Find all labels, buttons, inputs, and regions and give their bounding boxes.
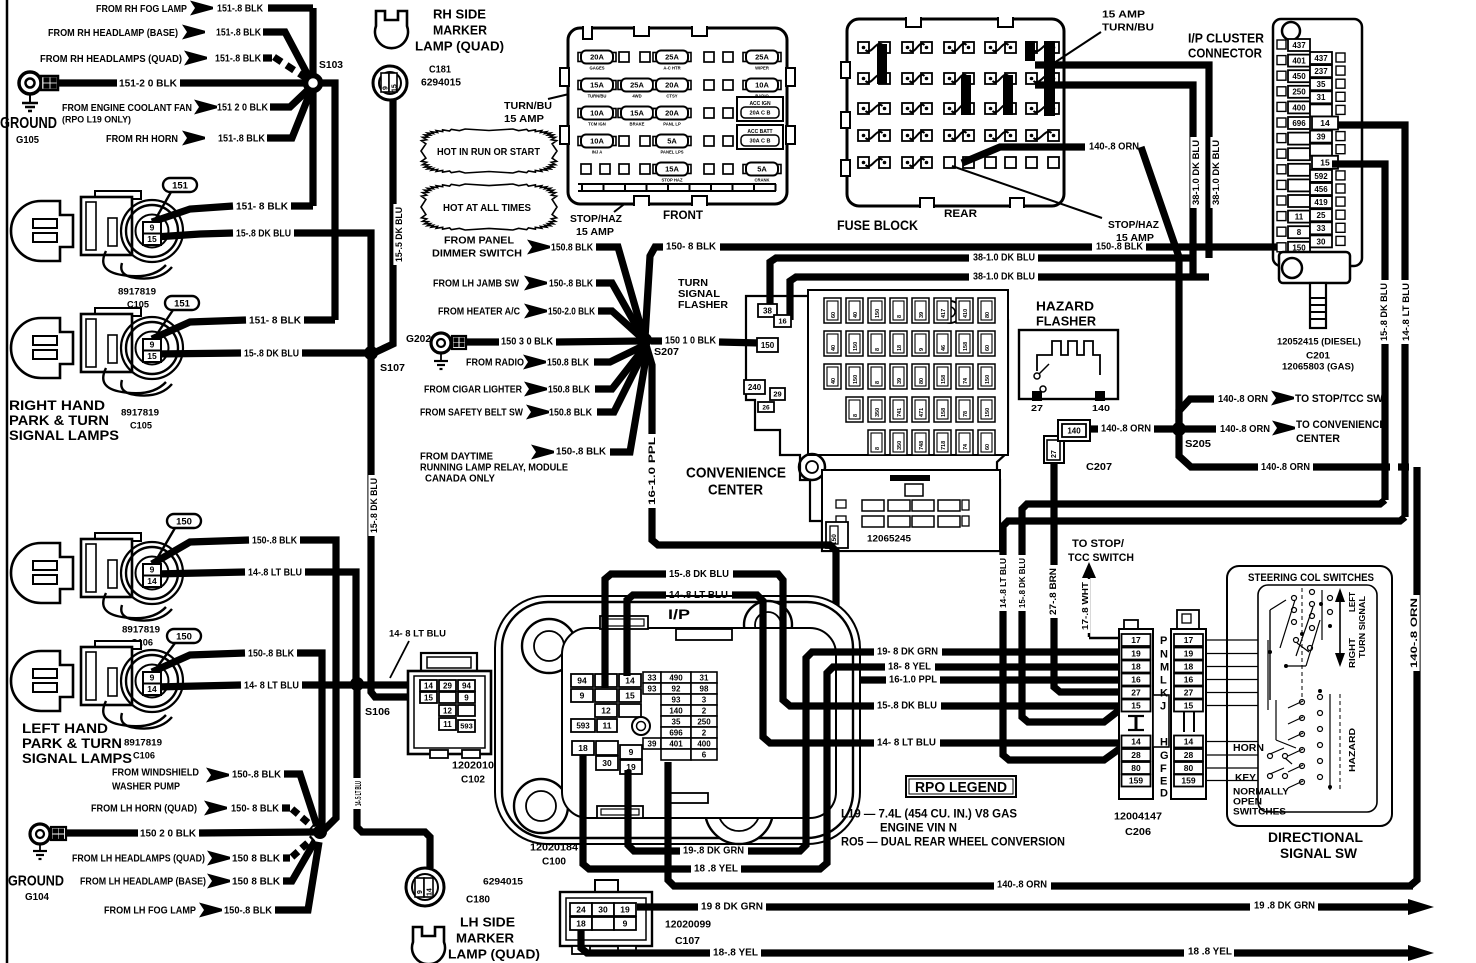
svg-text:20A: 20A	[665, 109, 679, 118]
svg-text:10A: 10A	[755, 81, 769, 90]
svg-text:2: 2	[702, 728, 707, 737]
svg-text:140-.8 ORN: 140-.8 ORN	[1409, 598, 1419, 668]
svg-text:31: 31	[1317, 93, 1326, 102]
svg-text:C106: C106	[133, 750, 155, 761]
svg-text:94: 94	[577, 676, 587, 686]
svg-text:GAGES: GAGES	[589, 66, 604, 71]
svg-text:15-.8 DK BLU: 15-.8 DK BLU	[236, 229, 291, 240]
svg-text:FROM LH JAMB SW: FROM LH JAMB SW	[433, 279, 520, 290]
svg-text:8917819: 8917819	[122, 624, 160, 635]
svg-text:HOT AT ALL TIMES: HOT AT ALL TIMES	[443, 202, 531, 214]
svg-text:ACC IGN: ACC IGN	[749, 101, 771, 107]
svg-text:9: 9	[623, 919, 628, 929]
svg-text:8: 8	[875, 381, 881, 384]
svg-text:158: 158	[941, 375, 947, 384]
svg-text:FROM RADIO: FROM RADIO	[466, 358, 524, 369]
svg-text:L19 — 7.4L (454 CU. IN.) V8 GA: L19 — 7.4L (454 CU. IN.) V8 GAS	[841, 806, 1017, 820]
svg-text:C207: C207	[1086, 461, 1112, 473]
svg-text:158: 158	[941, 408, 947, 417]
svg-text:12: 12	[601, 706, 611, 716]
svg-text:19: 19	[1131, 649, 1141, 659]
svg-text:RPO LEGEND: RPO LEGEND	[915, 780, 1007, 796]
svg-text:14: 14	[424, 681, 433, 690]
svg-text:14- 8 LT BLU: 14- 8 LT BLU	[877, 738, 936, 749]
svg-text:25: 25	[1317, 211, 1326, 220]
svg-text:E: E	[1160, 776, 1167, 788]
svg-text:15: 15	[424, 693, 433, 702]
svg-text:6: 6	[702, 750, 707, 759]
svg-text:18: 18	[1184, 662, 1194, 672]
svg-text:5A: 5A	[667, 137, 677, 146]
svg-text:HOT IN RUN OR START: HOT IN RUN OR START	[437, 146, 541, 158]
svg-text:741: 741	[897, 408, 903, 417]
svg-text:FROM RH FOG LAMP: FROM RH FOG LAMP	[96, 3, 187, 15]
svg-text:RUNNING LAMP RELAY, MODULE: RUNNING LAMP RELAY, MODULE	[420, 463, 568, 474]
svg-text:401: 401	[1292, 57, 1306, 66]
svg-text:6294015: 6294015	[421, 78, 461, 89]
svg-text:159: 159	[1129, 776, 1143, 786]
svg-text:30A C B: 30A C B	[750, 139, 771, 145]
svg-text:TO CONVENIENCE: TO CONVENIENCE	[1296, 419, 1386, 431]
svg-text:33: 33	[648, 673, 657, 682]
svg-text:15 AMP: 15 AMP	[576, 226, 614, 238]
svg-text:9: 9	[919, 348, 925, 351]
svg-text:12065803 (GAS): 12065803 (GAS)	[1282, 361, 1354, 372]
svg-text:12004147: 12004147	[1114, 812, 1162, 823]
svg-text:8917819: 8917819	[121, 407, 159, 418]
svg-text:CONNECTOR: CONNECTOR	[1188, 46, 1263, 61]
svg-text:19 .8 DK GRN: 19 .8 DK GRN	[1254, 901, 1315, 912]
svg-text:TURN SIGNAL: TURN SIGNAL	[1357, 596, 1367, 658]
svg-text:6294015: 6294015	[483, 876, 524, 887]
svg-text:80: 80	[1131, 763, 1141, 773]
svg-text:400: 400	[697, 739, 711, 748]
svg-text:CENTER: CENTER	[1296, 433, 1340, 445]
svg-text:60: 60	[831, 312, 837, 318]
svg-text:14: 14	[625, 676, 635, 686]
svg-text:27: 27	[1184, 688, 1194, 698]
svg-text:PARK & TURN: PARK & TURN	[22, 736, 122, 751]
svg-text:STEERING COL SWITCHES: STEERING COL SWITCHES	[1248, 572, 1374, 584]
svg-text:38: 38	[763, 306, 772, 315]
svg-text:CANADA ONLY: CANADA ONLY	[425, 474, 495, 485]
svg-text:140-.8 ORN: 140-.8 ORN	[1261, 461, 1310, 473]
svg-text:(RPO L19 ONLY): (RPO L19 ONLY)	[62, 114, 131, 125]
svg-text:C100: C100	[542, 857, 566, 868]
svg-text:40: 40	[853, 312, 859, 318]
svg-text:9: 9	[150, 223, 155, 233]
svg-text:33: 33	[1317, 224, 1326, 233]
svg-text:M: M	[1160, 662, 1169, 674]
svg-text:5A: 5A	[757, 165, 767, 174]
svg-text:14-.8 LT BLU: 14-.8 LT BLU	[1401, 283, 1411, 341]
svg-text:12020100: 12020100	[452, 761, 500, 772]
svg-text:4WD: 4WD	[632, 94, 641, 99]
svg-text:437: 437	[1292, 41, 1306, 50]
svg-text:151-.8 BLK: 151-.8 BLK	[215, 54, 262, 65]
svg-text:30: 30	[598, 905, 608, 915]
svg-text:17-.8 WHT: 17-.8 WHT	[1080, 581, 1090, 630]
svg-text:15A: 15A	[590, 81, 604, 90]
svg-text:78: 78	[963, 411, 969, 417]
svg-text:80: 80	[985, 312, 991, 318]
svg-text:27-.8 BRN: 27-.8 BRN	[1048, 568, 1058, 615]
svg-text:RIGHT: RIGHT	[1347, 637, 1357, 668]
svg-text:CTSY: CTSY	[666, 94, 677, 99]
svg-text:38-1.0 DK BLU: 38-1.0 DK BLU	[973, 272, 1035, 283]
svg-text:L: L	[1160, 675, 1167, 687]
svg-text:150-2.0 BLK: 150-2.0 BLK	[548, 307, 596, 318]
svg-text:C102: C102	[461, 775, 485, 786]
svg-text:150- 8 BLK: 150- 8 BLK	[666, 242, 717, 253]
svg-text:14-.8 LT BLU: 14-.8 LT BLU	[669, 589, 728, 601]
svg-text:27: 27	[1131, 688, 1141, 698]
svg-text:16-1.0 PPL: 16-1.0 PPL	[889, 675, 937, 686]
svg-text:25A: 25A	[665, 53, 679, 62]
svg-text:80: 80	[1184, 763, 1194, 773]
svg-text:9: 9	[417, 890, 424, 894]
svg-text:30: 30	[602, 758, 612, 768]
svg-text:14: 14	[427, 888, 434, 896]
svg-text:150.8 BLK: 150.8 BLK	[548, 385, 591, 396]
svg-text:FROM LH HEADLAMPS (QUAD): FROM LH HEADLAMPS (QUAD)	[72, 854, 205, 865]
svg-text:150-.8 BLK: 150-.8 BLK	[1096, 242, 1144, 253]
svg-text:G: G	[1160, 750, 1169, 762]
svg-text:8: 8	[875, 447, 881, 450]
svg-text:25A: 25A	[755, 53, 769, 62]
svg-text:HORN: HORN	[1233, 742, 1264, 754]
svg-text:98: 98	[700, 684, 709, 693]
svg-text:30: 30	[1317, 237, 1326, 246]
svg-text:S205: S205	[1185, 438, 1211, 450]
svg-text:18- 8 YEL: 18- 8 YEL	[888, 662, 931, 673]
svg-text:15: 15	[625, 691, 635, 701]
svg-text:38-1.0 DK BLU: 38-1.0 DK BLU	[973, 253, 1035, 264]
svg-text:18-.8 YEL: 18-.8 YEL	[713, 948, 758, 959]
svg-text:150: 150	[761, 341, 775, 350]
svg-text:150: 150	[853, 375, 859, 384]
svg-text:24: 24	[576, 905, 586, 915]
svg-text:15: 15	[392, 84, 399, 92]
svg-text:150.8 BLK: 150.8 BLK	[549, 408, 593, 419]
svg-text:11: 11	[1295, 213, 1304, 222]
svg-text:H: H	[1160, 737, 1168, 749]
svg-text:TO STOP/: TO STOP/	[1072, 538, 1124, 550]
svg-text:25A: 25A	[630, 81, 644, 90]
svg-text:15-.5 DK BLU: 15-.5 DK BLU	[394, 207, 404, 262]
svg-text:C181: C181	[429, 65, 451, 76]
svg-text:10A: 10A	[590, 109, 604, 118]
svg-text:150-.8 BLK: 150-.8 BLK	[556, 447, 607, 458]
svg-text:40: 40	[831, 378, 837, 384]
svg-text:150 1 0 BLK: 150 1 0 BLK	[665, 336, 717, 347]
svg-text:350: 350	[897, 441, 903, 450]
svg-text:DIRECTIONAL: DIRECTIONAL	[1268, 829, 1363, 845]
svg-text:FROM PANEL: FROM PANEL	[444, 236, 514, 247]
svg-text:26: 26	[762, 404, 770, 411]
svg-text:151-.8 BLK: 151-.8 BLK	[218, 134, 266, 145]
svg-text:240: 240	[748, 383, 762, 392]
svg-text:592: 592	[1314, 172, 1328, 181]
svg-text:150-.8 BLK: 150-.8 BLK	[252, 536, 298, 547]
svg-text:WIPER: WIPER	[755, 66, 769, 71]
svg-text:16: 16	[1131, 675, 1141, 685]
svg-text:14: 14	[1320, 118, 1330, 128]
svg-text:92: 92	[672, 684, 681, 693]
svg-text:STOP HAZ: STOP HAZ	[661, 178, 682, 183]
svg-text:18: 18	[578, 743, 588, 753]
svg-text:15: 15	[1320, 157, 1330, 167]
svg-text:15A: 15A	[630, 109, 644, 118]
svg-text:15-.8 DK BLU: 15-.8 DK BLU	[1017, 558, 1027, 608]
svg-text:150-.8 BLK: 150-.8 BLK	[248, 649, 295, 660]
svg-text:KEY: KEY	[1235, 772, 1256, 784]
svg-text:39: 39	[1317, 133, 1326, 142]
svg-text:15-.8 DK BLU: 15-.8 DK BLU	[877, 701, 937, 712]
svg-text:12052415 (DIESEL): 12052415 (DIESEL)	[1277, 336, 1361, 347]
svg-text:9: 9	[150, 673, 155, 683]
svg-text:748: 748	[919, 441, 925, 450]
svg-text:17: 17	[1184, 635, 1194, 645]
svg-text:27: 27	[1031, 403, 1043, 413]
svg-text:19: 19	[1184, 649, 1194, 659]
svg-text:FROM HEATER A/C: FROM HEATER A/C	[438, 307, 520, 318]
svg-text:593: 593	[460, 722, 473, 731]
svg-text:11: 11	[443, 720, 452, 729]
svg-text:14-.5 LT BLU: 14-.5 LT BLU	[353, 781, 363, 806]
svg-text:419: 419	[1314, 198, 1328, 207]
svg-text:15: 15	[1131, 701, 1141, 711]
svg-text:150- 8 BLK: 150- 8 BLK	[231, 804, 280, 815]
svg-text:151-2 0 BLK: 151-2 0 BLK	[119, 79, 178, 90]
svg-text:PARK & TURN: PARK & TURN	[9, 413, 109, 428]
svg-text:9: 9	[150, 565, 155, 575]
svg-text:GROUND: GROUND	[8, 872, 64, 889]
svg-text:159: 159	[1181, 776, 1195, 786]
svg-text:158: 158	[963, 342, 969, 351]
svg-text:FROM RH HEADLAMPS (QUAD): FROM RH HEADLAMPS (QUAD)	[40, 53, 182, 65]
svg-text:250: 250	[1292, 88, 1306, 97]
svg-text:60: 60	[985, 345, 991, 351]
svg-text:12: 12	[443, 706, 452, 715]
svg-text:14-.8 LT BLU: 14-.8 LT BLU	[998, 558, 1008, 608]
svg-text:16: 16	[1184, 675, 1194, 685]
svg-text:15: 15	[1184, 701, 1194, 711]
svg-text:150: 150	[176, 631, 192, 642]
svg-text:94: 94	[462, 681, 471, 690]
svg-text:I/P: I/P	[668, 606, 690, 622]
svg-text:3: 3	[702, 695, 707, 704]
svg-text:40: 40	[831, 345, 837, 351]
svg-text:15-.8 DK BLU: 15-.8 DK BLU	[1379, 283, 1389, 341]
svg-text:38-1.0 DK BLU: 38-1.0 DK BLU	[1211, 140, 1221, 205]
svg-text:12020099: 12020099	[665, 920, 711, 931]
svg-text:I/P CLUSTER: I/P CLUSTER	[1188, 31, 1265, 46]
svg-text:150-.8 BLK: 150-.8 BLK	[224, 906, 273, 917]
svg-text:BRAKE: BRAKE	[630, 122, 645, 127]
svg-text:20A C B: 20A C B	[750, 111, 771, 117]
svg-text:STOP/HAZ: STOP/HAZ	[1108, 219, 1160, 231]
svg-text:TURN/BU: TURN/BU	[504, 100, 552, 112]
svg-text:29: 29	[443, 681, 452, 690]
svg-text:140: 140	[1092, 403, 1110, 413]
svg-text:FROM WINDSHIELD: FROM WINDSHIELD	[112, 768, 199, 779]
svg-text:S107: S107	[380, 362, 405, 374]
svg-text:18: 18	[1131, 662, 1141, 672]
svg-text:140-.8 ORN: 140-.8 ORN	[1220, 423, 1270, 435]
svg-text:140-.8 ORN: 140-.8 ORN	[1101, 424, 1151, 435]
svg-text:P: P	[1160, 635, 1167, 647]
svg-text:150-.8 BLK: 150-.8 BLK	[232, 770, 282, 781]
svg-text:ENGINE VIN N: ENGINE VIN N	[880, 820, 957, 834]
svg-text:150 8 BLK: 150 8 BLK	[232, 877, 281, 888]
svg-text:150: 150	[853, 342, 859, 351]
svg-text:39: 39	[648, 739, 657, 748]
svg-text:TCC SWITCH: TCC SWITCH	[1068, 552, 1134, 564]
svg-text:150 2 0 BLK: 150 2 0 BLK	[140, 829, 197, 840]
svg-text:TURN/BU: TURN/BU	[588, 94, 607, 99]
svg-text:PANEL LPS: PANEL LPS	[660, 150, 683, 155]
svg-text:FLASHER: FLASHER	[678, 299, 728, 311]
svg-text:140-.8 ORN: 140-.8 ORN	[1089, 142, 1139, 153]
svg-text:350: 350	[875, 408, 881, 417]
svg-text:RO5 — DUAL REAR WHEEL CONVERSI: RO5 — DUAL REAR WHEEL CONVERSION	[841, 834, 1065, 848]
svg-text:A-C HTR: A-C HTR	[663, 66, 680, 71]
svg-text:456: 456	[1314, 185, 1328, 194]
svg-text:450: 450	[1292, 72, 1306, 81]
svg-text:LEFT HAND: LEFT HAND	[22, 721, 108, 736]
svg-text:39: 39	[897, 378, 903, 384]
svg-text:151: 151	[174, 298, 191, 309]
svg-text:CONVENIENCE: CONVENIENCE	[686, 464, 786, 481]
svg-text:150.8 BLK: 150.8 BLK	[551, 243, 594, 254]
svg-text:CRANK: CRANK	[754, 178, 769, 183]
svg-text:C107: C107	[675, 935, 700, 947]
svg-text:LAMP (QUAD): LAMP (QUAD)	[448, 947, 540, 962]
svg-text:12020184: 12020184	[530, 843, 578, 854]
svg-text:TO STOP/TCC SW: TO STOP/TCC SW	[1295, 393, 1384, 405]
svg-text:28: 28	[1131, 750, 1141, 760]
svg-text:C206: C206	[1125, 826, 1151, 838]
svg-text:8: 8	[1297, 228, 1302, 237]
svg-text:C201: C201	[1306, 350, 1331, 361]
svg-text:REAR: REAR	[944, 208, 977, 220]
svg-text:PANL LP: PANL LP	[663, 122, 681, 127]
svg-text:TURN/BU: TURN/BU	[1102, 23, 1154, 34]
svg-text:STOP/HAZ: STOP/HAZ	[570, 213, 623, 225]
svg-text:SIGNAL LAMPS: SIGNAL LAMPS	[22, 751, 132, 766]
svg-text:LH SIDE: LH SIDE	[460, 915, 515, 930]
svg-text:8917819: 8917819	[124, 737, 162, 748]
svg-text:140: 140	[1067, 426, 1081, 435]
svg-text:LAMP (QUAD): LAMP (QUAD)	[415, 39, 504, 54]
svg-text:G202: G202	[406, 333, 431, 345]
svg-text:F: F	[1160, 763, 1167, 775]
svg-text:FROM DAYTIME: FROM DAYTIME	[420, 452, 493, 463]
svg-text:19 8 DK GRN: 19 8 DK GRN	[701, 902, 763, 913]
svg-text:17: 17	[1131, 635, 1141, 645]
svg-text:G105: G105	[16, 134, 39, 146]
svg-text:593: 593	[576, 721, 590, 730]
svg-text:N: N	[1160, 649, 1168, 661]
svg-text:401: 401	[669, 739, 683, 748]
svg-text:9: 9	[383, 86, 390, 90]
svg-text:39: 39	[919, 312, 925, 318]
svg-text:150: 150	[985, 408, 991, 417]
svg-text:16: 16	[778, 317, 786, 326]
svg-text:9: 9	[580, 691, 585, 701]
svg-text:14: 14	[147, 576, 157, 586]
svg-text:140-.8 ORN: 140-.8 ORN	[997, 880, 1047, 891]
svg-text:29: 29	[773, 390, 781, 399]
svg-text:93: 93	[648, 684, 657, 693]
svg-text:400: 400	[1292, 103, 1306, 112]
svg-text:9: 9	[464, 693, 469, 702]
svg-text:SIGNAL SW: SIGNAL SW	[1280, 845, 1358, 861]
svg-text:151- 8 BLK: 151- 8 BLK	[249, 316, 302, 327]
svg-text:35: 35	[1317, 80, 1326, 89]
svg-text:490: 490	[669, 673, 683, 682]
svg-text:CENTER: CENTER	[708, 481, 763, 498]
svg-text:19: 19	[620, 905, 630, 915]
svg-text:8: 8	[897, 315, 903, 318]
svg-text:MARKER: MARKER	[433, 23, 488, 38]
svg-text:DIMMER SWITCH: DIMMER SWITCH	[432, 249, 522, 260]
svg-text:35: 35	[672, 717, 681, 726]
svg-text:J: J	[1160, 701, 1166, 713]
svg-text:150 3 0 BLK: 150 3 0 BLK	[501, 337, 554, 348]
svg-text:15: 15	[147, 234, 157, 244]
svg-text:151-.8 BLK: 151-.8 BLK	[217, 4, 264, 15]
svg-text:FROM ENGINE COOLANT FAN: FROM ENGINE COOLANT FAN	[62, 102, 192, 114]
svg-text:74: 74	[963, 443, 969, 450]
svg-text:15 AMP: 15 AMP	[504, 113, 544, 125]
svg-text:20A: 20A	[590, 53, 604, 62]
svg-text:S207: S207	[654, 346, 679, 358]
svg-text:FROM CIGAR LIGHTER: FROM CIGAR LIGHTER	[424, 385, 523, 396]
svg-text:C105: C105	[130, 420, 153, 431]
svg-text:151: 151	[172, 180, 189, 191]
svg-text:FROM LH HEADLAMP (BASE): FROM LH HEADLAMP (BASE)	[80, 877, 206, 888]
svg-text:237: 237	[1314, 67, 1328, 76]
svg-text:140-.8 ORN: 140-.8 ORN	[1218, 393, 1268, 405]
svg-text:18: 18	[576, 919, 586, 929]
svg-text:471: 471	[919, 408, 925, 417]
svg-text:696: 696	[1292, 119, 1306, 128]
svg-text:151- 8 BLK: 151- 8 BLK	[236, 202, 289, 213]
svg-text:14: 14	[147, 684, 157, 694]
svg-text:28: 28	[1184, 750, 1194, 760]
svg-text:18 .8 YEL: 18 .8 YEL	[694, 864, 738, 875]
svg-text:8917819: 8917819	[118, 286, 156, 297]
svg-text:FROM SAFETY BELT SW: FROM SAFETY BELT SW	[420, 408, 523, 419]
svg-text:151-.8 BLK: 151-.8 BLK	[216, 28, 262, 39]
svg-text:HAZARD: HAZARD	[1347, 728, 1357, 772]
svg-text:15 AMP: 15 AMP	[1102, 10, 1145, 21]
svg-text:150 8 BLK: 150 8 BLK	[232, 854, 281, 865]
svg-text:14-.8 LT BLU: 14-.8 LT BLU	[248, 568, 302, 579]
svg-text:93: 93	[672, 695, 681, 704]
svg-text:15: 15	[147, 351, 157, 361]
svg-text:14- 8 LT BLU: 14- 8 LT BLU	[389, 628, 446, 639]
svg-text:437: 437	[1314, 54, 1328, 63]
svg-text:14: 14	[1131, 737, 1141, 747]
svg-text:INJ A: INJ A	[592, 150, 603, 155]
svg-text:FLASHER: FLASHER	[1036, 314, 1097, 329]
svg-text:250: 250	[697, 717, 711, 726]
svg-text:8: 8	[875, 348, 881, 351]
svg-text:TCM IGN: TCM IGN	[588, 122, 606, 127]
